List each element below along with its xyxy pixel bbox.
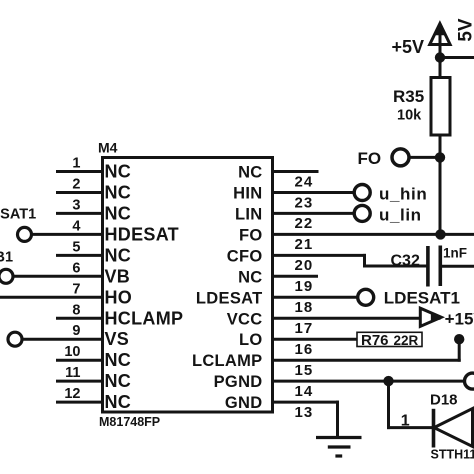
svg-text:6: 6 [72,260,80,276]
wire: R76 node down to LCLAMP [458,339,461,360]
wire: left pin 10 [58,359,103,362]
svg-text:HDESAT: HDESAT [105,224,179,244]
svg-text:GND: GND [225,394,263,412]
svg-text:22R: 22R [394,333,419,348]
svg-text:M81748FP: M81748FP [99,415,160,429]
svg-text:VCC: VCC [227,310,263,328]
wire: left pin 2 [58,191,103,194]
wire: left pin 7 [0,296,103,299]
svg-text:NC: NC [105,245,132,265]
IC M4 body (M81748FP) [103,158,273,413]
svg-text:24: 24 [295,173,314,190]
wire: CFO lead to C32 [365,265,428,268]
svg-text:NC: NC [238,164,262,182]
svg-text:1: 1 [72,156,80,172]
svg-text:+15V: +15V [445,309,474,328]
svg-text:14: 14 [295,383,314,400]
svg-text:12: 12 [64,386,80,402]
wire: right pin 24 [273,170,318,173]
wire: left pin 8 [58,317,103,320]
svg-text:9: 9 [72,323,80,339]
wire: right pin 14 [273,380,465,383]
terminal circle LDESAT1 [358,289,374,305]
diode D18 cathode bar [432,409,436,448]
capacitor C32 right plate [438,246,442,287]
junction R76 output node [454,334,464,344]
svg-text:u_lin: u_lin [379,205,422,224]
svg-text:NC: NC [238,268,262,286]
terminal circle PGND (right edge) [465,373,474,389]
svg-text:LO: LO [239,331,263,349]
svg-text:R35: R35 [393,87,424,106]
svg-text:HIN: HIN [233,185,262,203]
wire: left pin 5 [58,254,103,257]
wire: left pin 11 [58,380,103,383]
svg-text:1nF: 1nF [443,246,467,261]
power symbol +5V triangle [430,24,450,45]
svg-text:11: 11 [65,365,80,381]
terminal circle VS [8,332,22,346]
junction pin21/FO net [435,229,445,239]
wire: left pin 6 [13,275,103,278]
svg-text:20: 20 [295,257,314,274]
svg-text:C32: C32 [391,253,420,270]
terminal circle DESAT1 [18,227,32,241]
svg-text:7: 7 [72,281,80,297]
junction FO tee [435,152,445,162]
junction +5V node [435,52,445,62]
svg-text:4: 4 [72,218,80,234]
wire: left pin 1 [58,170,103,173]
resistor R35 body [431,78,450,136]
svg-text:FO: FO [358,149,382,168]
svg-text:16: 16 [295,341,314,358]
svg-text:LDESAT1: LDESAT1 [384,288,460,307]
svg-text:STTH1102: STTH1102 [431,447,474,461]
diode D18 triangle [434,409,473,447]
wire: right pin 23 [273,191,354,194]
svg-text:10k: 10k [397,108,422,124]
svg-text:23: 23 [295,194,314,211]
svg-text:M4: M4 [98,140,118,156]
svg-text:10: 10 [64,344,80,360]
svg-text:LDESAT: LDESAT [196,289,263,307]
wire: right pin 22 [273,212,354,215]
wire: C32 right lead to edge [440,265,474,268]
wire: right pin 20 [273,254,365,257]
svg-text:HCLAMP: HCLAMP [105,308,184,328]
svg-text:18: 18 [295,299,314,316]
wire: left pin 12 [58,401,103,404]
terminal circle B1 [0,269,13,283]
svg-text:VB: VB [105,266,131,286]
power symbol +15V triangle [420,308,441,326]
svg-text:5V: 5V [455,18,474,42]
wire: left pin 9 [23,338,103,341]
svg-text:NC: NC [105,392,132,412]
svg-text:NC: NC [105,371,132,391]
svg-text:DESAT1: DESAT1 [0,207,36,223]
wire: R35 bottom to FO node and down to pin21 line [439,135,442,234]
wire: CFO step down [363,255,366,266]
svg-text:D18: D18 [430,391,458,408]
svg-text:R76: R76 [361,332,389,349]
terminal circle FO [392,149,409,166]
svg-text:+5V: +5V [392,37,425,57]
svg-text:PGND: PGND [214,373,263,391]
svg-text:3: 3 [72,197,80,213]
svg-text:u_hin: u_hin [379,185,427,204]
wire: PGND drop [387,381,390,428]
svg-text:15: 15 [295,362,314,379]
svg-text:5: 5 [72,239,80,255]
wire: FO terminal to node [409,156,440,159]
svg-text:8: 8 [72,302,80,318]
wire: right pin 17 [273,317,440,320]
terminal circle u_hin [354,185,370,201]
svg-text:17: 17 [295,320,314,337]
svg-text:19: 19 [295,278,314,295]
svg-text:NC: NC [105,183,132,203]
svg-text:22: 22 [295,215,314,232]
svg-text:LIN: LIN [235,205,262,223]
terminal circle u_lin [354,205,370,221]
svg-text:HO: HO [105,287,133,307]
svg-text:1: 1 [401,413,410,430]
wire: right pin 15 [273,359,460,362]
svg-text:2: 2 [72,177,80,193]
wire: right pin 21 [273,233,474,236]
wire: left pin 3 [58,212,103,215]
svg-text:FO: FO [239,226,263,244]
svg-text:CFO: CFO [227,247,263,265]
svg-text:NC: NC [105,162,132,182]
ground symbol [316,438,362,457]
svg-text:LCLAMP: LCLAMP [192,352,263,370]
wire: GND pin 13 drop [336,402,339,437]
wire: +5V node to right edge [440,56,474,59]
wire: right pin 16 [273,338,358,341]
svg-text:21: 21 [295,236,314,253]
svg-text:B1: B1 [0,250,13,266]
wire: to D18 cathode [389,426,434,429]
svg-text:NC: NC [105,203,132,223]
wire: left pin 4 [32,233,103,236]
wire: right pin 13 [273,401,338,404]
capacitor C32 left plate [426,246,430,287]
svg-text:VS: VS [105,329,130,349]
resistor R76 body [357,332,422,346]
junction PGND tee [383,376,393,386]
svg-text:13: 13 [295,404,314,421]
svg-text:NC: NC [105,350,132,370]
wire: right pin 18 [273,296,357,299]
wire: +5V stem down to node [439,45,442,78]
wire: right pin 19 [273,275,317,278]
